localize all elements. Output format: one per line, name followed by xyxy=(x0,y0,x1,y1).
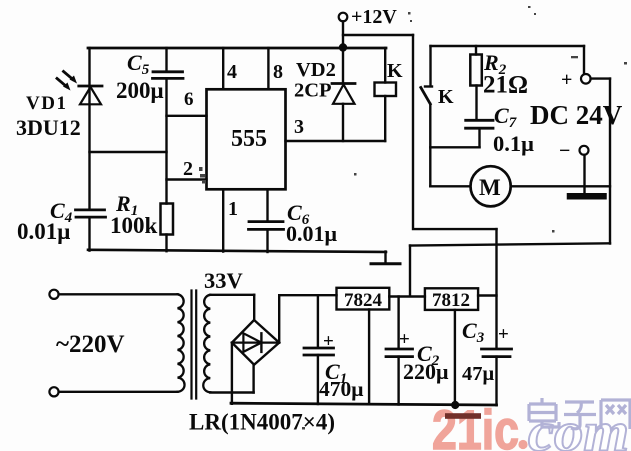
svg-text:C3: C3 xyxy=(462,318,485,346)
svg-text:K: K xyxy=(438,86,454,108)
svg-text:6: 6 xyxy=(184,89,194,110)
svg-text:21ic: 21ic xyxy=(432,398,519,451)
svg-text:~220V: ~220V xyxy=(56,331,125,358)
svg-text:220μ: 220μ xyxy=(403,359,449,384)
svg-text:C7: C7 xyxy=(494,103,517,131)
svg-text:+: + xyxy=(561,69,572,91)
svg-text:1: 1 xyxy=(228,198,238,220)
svg-text:2CP: 2CP xyxy=(294,80,332,102)
svg-text:100k: 100k xyxy=(110,213,158,238)
svg-text:2: 2 xyxy=(183,158,193,180)
svg-text:33V: 33V xyxy=(204,268,243,293)
svg-text:200μ: 200μ xyxy=(116,78,164,103)
svg-text:K: K xyxy=(387,60,403,82)
svg-text:3DU12: 3DU12 xyxy=(16,115,81,140)
svg-text:555: 555 xyxy=(231,126,267,152)
svg-text:0.01μ: 0.01μ xyxy=(17,219,70,244)
svg-text:21Ω: 21Ω xyxy=(483,72,528,99)
svg-text:7812: 7812 xyxy=(432,290,470,311)
svg-text:LR(1N4007×4): LR(1N4007×4) xyxy=(189,410,335,435)
svg-text:M: M xyxy=(479,175,501,200)
svg-text:4: 4 xyxy=(227,61,237,83)
svg-text:+: + xyxy=(498,324,509,345)
svg-text:8: 8 xyxy=(273,61,283,83)
svg-text:0.1μ: 0.1μ xyxy=(493,131,534,156)
svg-text:+: + xyxy=(323,331,334,352)
svg-text:3: 3 xyxy=(294,116,304,138)
svg-text:470μ: 470μ xyxy=(319,377,363,401)
svg-text:+12V: +12V xyxy=(351,6,397,28)
svg-text:VD1: VD1 xyxy=(26,93,67,114)
svg-text:VD2: VD2 xyxy=(296,59,336,81)
svg-text:DC 24V: DC 24V xyxy=(530,100,623,130)
svg-text:C5: C5 xyxy=(127,50,150,78)
svg-text:−: − xyxy=(559,140,570,162)
svg-text:+: + xyxy=(399,329,410,350)
svg-text:47μ: 47μ xyxy=(462,363,495,385)
svg-text:0.01μ: 0.01μ xyxy=(286,221,338,246)
svg-text:7824: 7824 xyxy=(344,290,383,311)
